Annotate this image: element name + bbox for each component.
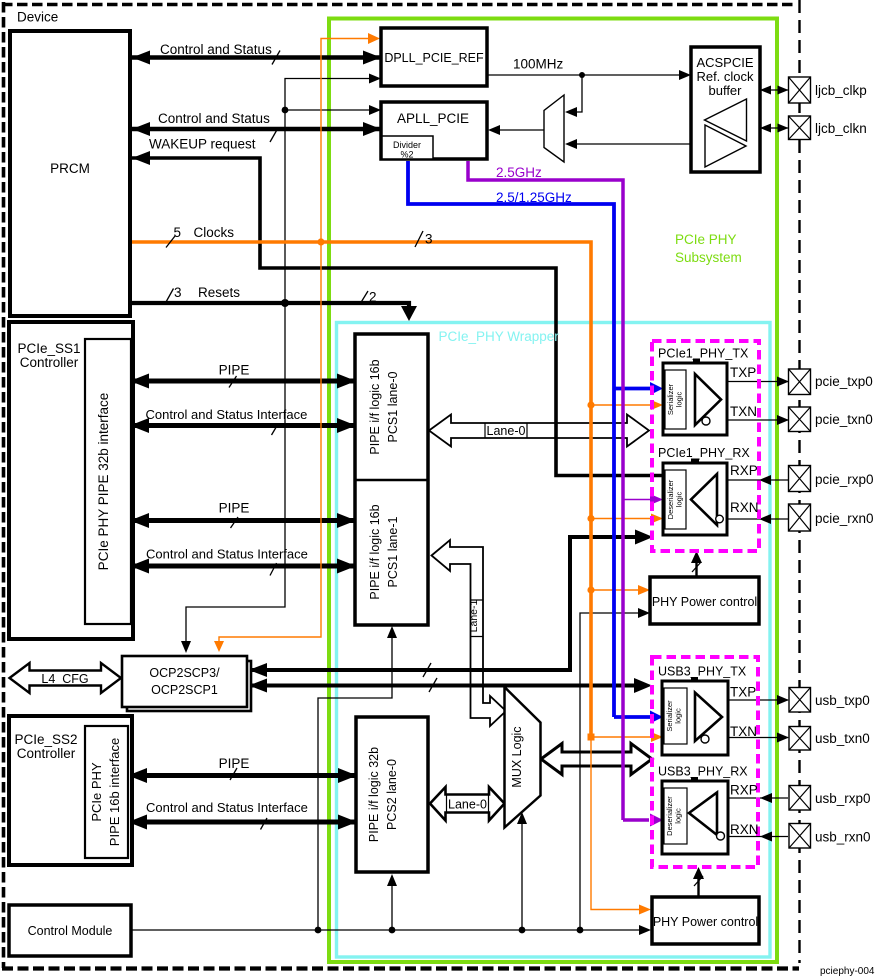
wire RXP pcie — [727, 479, 788, 481]
svg-text:ACSPCIE: ACSPCIE — [696, 55, 753, 70]
PCIe1 PHY magenta dashed box — [652, 341, 759, 551]
wire branch to PHY Power control 1 — [580, 613, 644, 930]
svg-text:Subsystem: Subsystem — [675, 250, 742, 265]
svg-text:Controller: Controller — [17, 746, 76, 761]
wire Control Module net — [131, 929, 644, 931]
pad usb_txn0 — [789, 727, 811, 751]
wire TXP pcie — [702, 381, 788, 383]
wire blue 2.5/1.25GHz — [408, 161, 614, 717]
svg-text:Ref. clock: Ref. clock — [696, 69, 754, 84]
svg-text:APLL_PCIE: APLL_PCIE — [397, 111, 469, 126]
wire Clocks orange trunk — [132, 242, 591, 737]
block PRCM — [10, 31, 130, 316]
block OCP2SCP3/OCP2SCP1 — [122, 656, 247, 707]
svg-text:PCIe_SS2: PCIe_SS2 — [14, 732, 77, 747]
wire TXP usb — [703, 699, 788, 701]
svg-text:Device: Device — [17, 10, 58, 25]
wire PIPE SS1 lane1 — [131, 518, 354, 523]
svg-text:2: 2 — [369, 290, 377, 305]
svg-text:PHY Power control: PHY Power control — [652, 595, 757, 609]
wire branch to PCS1 lane-1 bottom — [318, 631, 392, 930]
Device outer dashed border top — [2, 3, 793, 7]
svg-text:PIPE: PIPE — [219, 363, 250, 378]
svg-text:usb_rxn0: usb_rxn0 — [815, 830, 871, 845]
pad pcie_rxp0 — [789, 466, 811, 492]
wire orange branch to OCP2SCP — [219, 242, 321, 645]
block PCIe_SS2 Controller — [9, 716, 132, 865]
wire purple 2.5GHz — [468, 161, 623, 820]
svg-text:Control and Status: Control and Status — [160, 42, 272, 57]
block PHY Power control 2 — [652, 897, 759, 944]
block ACSPCIE Ref clock buffer — [691, 47, 760, 172]
wire Control and Status Interface SS2 — [129, 820, 355, 825]
svg-text:USB3_PHY_RX: USB3_PHY_RX — [658, 765, 748, 779]
L4_CFG bus double arrow — [10, 663, 122, 693]
Device dashed border right / pad column line — [798, 0, 800, 963]
svg-text:buffer: buffer — [708, 83, 742, 98]
svg-text:usb_txn0: usb_txn0 — [815, 731, 870, 746]
svg-text:TXN: TXN — [730, 724, 757, 739]
svg-text:PIPE: PIPE — [219, 756, 250, 771]
PCIe_PHY Wrapper cyan border — [337, 323, 771, 958]
USB3 PHY magenta dashed box — [652, 657, 758, 867]
pad ljcb_clkp — [789, 77, 811, 103]
junction dots on control module net — [315, 927, 322, 934]
svg-text:logic: logic — [675, 392, 684, 408]
svg-text:L4_CFG: L4_CFG — [41, 672, 88, 686]
wire orange branch to USB3 serializer — [591, 736, 655, 738]
svg-text:Control and Status Interface: Control and Status Interface — [146, 547, 308, 562]
svg-text:PIPE i/f logic 16b: PIPE i/f logic 16b — [368, 504, 382, 599]
wire 100MHz to mux input — [571, 75, 582, 112]
svg-text:3: 3 — [174, 285, 182, 300]
svg-text:Lane-0: Lane-0 — [448, 798, 487, 812]
block MUX Logic — [505, 687, 541, 828]
wire orange branch to PCIe1 serializer — [591, 404, 655, 406]
wire control OCP2SCP to DPLL/APLL — [186, 79, 375, 648]
pad ljcb_clkn — [789, 116, 811, 140]
svg-text:PCIe1_PHY_RX: PCIe1_PHY_RX — [658, 446, 750, 460]
svg-text:TXP: TXP — [730, 365, 756, 380]
wire branch to MUX bottom — [521, 817, 523, 930]
label frame Lane-0 on PCS1 bus — [485, 423, 527, 438]
MUX to USB3 PHY bus double arrow — [541, 744, 652, 775]
svg-text:RXN: RXN — [730, 500, 759, 515]
block Divider %2 — [382, 136, 433, 159]
pad pcie_txn0 — [789, 407, 811, 432]
label frame Lane-1 on PCS1 lane-1 bus — [471, 600, 484, 637]
Device outer dashed border bottom — [2, 966, 799, 970]
svg-text:ljcb_clkn: ljcb_clkn — [815, 121, 867, 136]
svg-text:pciephy-004: pciephy-004 — [820, 966, 875, 977]
block PIPE i/f logic 32b PCS2 — [356, 717, 428, 872]
wire RXN usb — [728, 836, 788, 838]
svg-text:Resets: Resets — [198, 285, 240, 300]
svg-text:PCS2 lane-0: PCS2 lane-0 — [385, 759, 399, 830]
svg-text:PCIe_PHY Wrapper: PCIe_PHY Wrapper — [439, 329, 560, 344]
svg-text:logic: logic — [675, 492, 684, 508]
svg-text:RXP: RXP — [730, 463, 758, 478]
svg-text:2.5GHz: 2.5GHz — [496, 165, 542, 180]
Lane-0 bus arrow PCS1 lane-0 to PCIe1 PHY — [429, 415, 649, 447]
junction dot control line on resets — [281, 299, 289, 307]
svg-text:Controller: Controller — [20, 355, 79, 370]
svg-text:%2: %2 — [400, 150, 413, 160]
wire orange branch to PHY Power control 1 — [591, 589, 643, 591]
wire PHY Power control 2 up arrow — [697, 873, 699, 897]
block PCIe1 deserializer — [663, 463, 727, 535]
wire Control and Status PRCM-APLL — [132, 127, 381, 132]
svg-text:5: 5 — [174, 225, 182, 240]
svg-text:Control and Status Interface: Control and Status Interface — [146, 800, 308, 815]
wire PIPE SS2 — [129, 773, 355, 778]
svg-text:PIPE: PIPE — [219, 501, 250, 516]
svg-text:pcie_txp0: pcie_txp0 — [815, 374, 873, 389]
wire TXN usb — [708, 737, 788, 739]
pad usb_rxp0 — [789, 786, 811, 811]
wire PIPE SS1 lane0 — [131, 379, 354, 384]
block USB3 serializer — [662, 681, 728, 755]
pad usb_rxn0 — [789, 824, 811, 849]
mux trapezoid for ref clock — [544, 95, 564, 162]
Lane-1 bus arrow PCS1 lane-1 to MUX — [432, 540, 507, 726]
svg-text:Control and Status: Control and Status — [158, 111, 270, 126]
label frame Lane-0 on PCS2 bus — [447, 795, 489, 813]
svg-text:logic: logic — [674, 708, 683, 724]
svg-text:Clocks: Clocks — [194, 225, 235, 240]
svg-text:Divider: Divider — [393, 140, 421, 150]
slash marks — [272, 51, 280, 65]
svg-text:MUX Logic: MUX Logic — [510, 726, 524, 787]
svg-text:Control Module: Control Module — [28, 924, 113, 938]
wire PHY Power control 1 up arrow — [695, 556, 697, 577]
svg-text:Control and Status Interface: Control and Status Interface — [146, 407, 308, 422]
wire ACSPCIE to mux input — [571, 143, 691, 145]
svg-text:usb_txp0: usb_txp0 — [815, 693, 870, 708]
svg-text:PRCM: PRCM — [50, 161, 90, 176]
svg-text:pcie_rxn0: pcie_rxn0 — [815, 511, 874, 526]
wire ljcb_clkp pad link — [760, 89, 788, 91]
wire orange branch to PCIe1 deserializer — [591, 518, 655, 520]
svg-text:PCS1 lane-0: PCS1 lane-0 — [386, 372, 400, 443]
svg-text:RXN: RXN — [730, 822, 759, 837]
wire Control and Status PRCM-DPLL — [132, 55, 381, 60]
wire OCP2SCP to USB3 PHY TX — [249, 684, 638, 688]
pad pcie_txp0 — [789, 369, 811, 395]
svg-text:RXP: RXP — [730, 783, 758, 798]
wire Control and Status Interface SS1 lane0 — [131, 423, 354, 428]
svg-text:PIPE i/f logic 32b: PIPE i/f logic 32b — [367, 747, 381, 842]
svg-text:PCIe PHY: PCIe PHY — [89, 762, 104, 822]
svg-text:TXN: TXN — [730, 404, 757, 419]
pad usb_txp0 — [789, 688, 811, 713]
block PCIe PHY PIPE 32b interface — [85, 339, 131, 624]
svg-text:OCP2SCP3/: OCP2SCP3/ — [149, 666, 220, 680]
ACSPCIE buffer triangle down — [705, 125, 746, 167]
wire RXN pcie — [727, 518, 788, 520]
svg-text:PCIe PHY PIPE 32b interface: PCIe PHY PIPE 32b interface — [96, 393, 111, 571]
wire RXP usb — [728, 797, 788, 799]
svg-text:DPLL_PCIE_REF: DPLL_PCIE_REF — [384, 51, 484, 65]
svg-text:PCS1 lane-1: PCS1 lane-1 — [386, 517, 400, 588]
wire Control and Status Interface SS1 lane1 — [131, 564, 354, 569]
svg-text:PHY Power control: PHY Power control — [653, 915, 758, 929]
svg-text:OCP2SCP1: OCP2SCP1 — [151, 683, 218, 697]
svg-text:USB3_PHY_TX: USB3_PHY_TX — [658, 665, 747, 679]
block PCIe1 serializer — [663, 363, 727, 435]
svg-text:logic: logic — [674, 808, 683, 824]
svg-text:100MHz: 100MHz — [513, 57, 564, 72]
svg-text:WAKEUP request: WAKEUP request — [149, 137, 256, 152]
svg-text:PCIe1_PHY_TX: PCIe1_PHY_TX — [658, 347, 749, 361]
wire Resets PRCM to wrapper — [132, 303, 409, 309]
wire branch to PCS2 bottom — [391, 879, 393, 930]
wire ljcb_clkn pad link — [760, 127, 788, 129]
svg-text:pcie_rxp0: pcie_rxp0 — [815, 472, 874, 487]
block PCIe PHY PIPE 16b interface — [85, 726, 128, 858]
block PIPE i/f logic 16b PCS1 — [355, 334, 428, 625]
block PHY Power control 1 — [650, 577, 759, 624]
svg-text:usb_rxp0: usb_rxp0 — [815, 791, 871, 806]
block PCIe_SS1 Controller — [9, 322, 133, 639]
svg-text:PIPE i/f logic 16b: PIPE i/f logic 16b — [368, 359, 382, 454]
svg-text:TXP: TXP — [730, 685, 756, 700]
block Control Module — [9, 905, 131, 956]
svg-text:2.5/1.25GHz: 2.5/1.25GHz — [496, 190, 572, 205]
wire 100MHz — [487, 74, 684, 76]
svg-text:PIPE 16b interface: PIPE 16b interface — [107, 738, 122, 846]
wire OCP2SCP to PCIe1 PHY RX — [249, 537, 640, 670]
PCIe PHY Subsystem green border — [329, 19, 777, 963]
block OCP2SCP shadow — [127, 661, 251, 711]
wire TXN pcie — [710, 419, 788, 421]
block APLL_PCIE — [381, 102, 487, 159]
Device outer dashed border left — [2, 2, 6, 968]
block USB3 deserializer — [662, 781, 728, 854]
block DPLL_PCIE_REF — [381, 28, 487, 86]
svg-text:pcie_txn0: pcie_txn0 — [815, 412, 873, 427]
svg-text:3: 3 — [425, 232, 433, 247]
svg-text:PCIe PHY: PCIe PHY — [675, 232, 737, 247]
wire mux output to APLL — [494, 129, 544, 131]
wire orange branch to DPLL — [321, 39, 372, 243]
svg-text:Lane-1: Lane-1 — [468, 599, 480, 632]
pad pcie_rxn0 — [789, 504, 811, 531]
svg-text:Lane-0: Lane-0 — [487, 424, 526, 438]
Lane-0 bus arrow PCS2 to MUX — [430, 787, 505, 821]
svg-text:ljcb_clkp: ljcb_clkp — [815, 83, 867, 98]
wire WAKEUP request from deserializer to PRCM — [132, 158, 662, 476]
ACSPCIE buffer triangle up — [705, 99, 747, 141]
svg-text:PCIe_SS1: PCIe_SS1 — [17, 341, 80, 356]
wire branch to APLL — [285, 109, 375, 111]
